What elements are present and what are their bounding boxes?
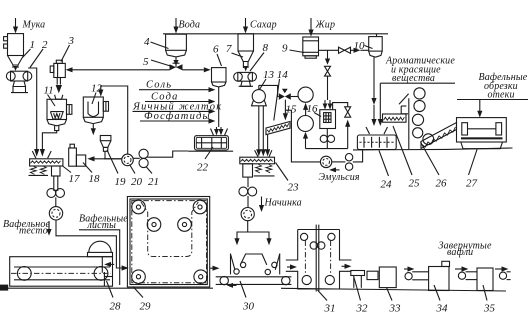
pump 20 bbox=[122, 154, 134, 166]
svg-text:9: 9 bbox=[282, 43, 288, 55]
svg-text:15: 15 bbox=[286, 104, 298, 116]
svg-text:22: 22 bbox=[197, 162, 209, 174]
svg-text:10: 10 bbox=[354, 40, 366, 52]
wire pump 13 drop lines to sieve 23 bbox=[258, 106, 260, 150]
wire pump 20 suction bbox=[104, 158, 122, 160]
svg-text:25: 25 bbox=[409, 178, 421, 190]
ground line left bbox=[0, 287, 213, 289]
inclined conveyor to 27 bbox=[421, 123, 457, 149]
wire tank 10 drain bbox=[373, 57, 375, 99]
wire water inlet arrow bbox=[175, 18, 177, 27]
svg-text:Вода: Вода bbox=[179, 20, 201, 31]
ground hatch left bbox=[0, 285, 8, 291]
baking oven 29 bbox=[127, 197, 209, 288]
wire dough line to oven bbox=[56, 220, 122, 268]
svg-text:3: 3 bbox=[68, 35, 75, 47]
svg-text:11: 11 bbox=[44, 85, 54, 97]
funnel over tank 24 bbox=[366, 127, 370, 134]
filling pump bbox=[241, 196, 254, 221]
feeder 3 bbox=[50, 60, 65, 99]
svg-text:Сахар: Сахар bbox=[250, 20, 277, 31]
vibrating sieve 23 bbox=[240, 150, 275, 177]
svg-text:6: 6 bbox=[213, 44, 219, 56]
hopper 7 bbox=[238, 34, 254, 72]
svg-text:33: 33 bbox=[389, 303, 402, 315]
svg-text:вещества: вещества bbox=[392, 73, 435, 84]
packing machine 34 bbox=[429, 261, 450, 290]
sheet take-off machine 28 bbox=[10, 241, 115, 286]
wire wafer sheets line bbox=[79, 230, 120, 285]
tank 10 bbox=[369, 34, 383, 57]
wire conveyor 14 discharge to sieve 23 bbox=[267, 135, 269, 150]
solution box 22 bbox=[188, 129, 233, 152]
dough pump rollers under sieve 17 bbox=[47, 189, 65, 198]
cutting machine 31 bbox=[286, 225, 352, 292]
press 32 bbox=[351, 271, 365, 288]
tank 9 bbox=[303, 37, 319, 58]
svg-text:18: 18 bbox=[89, 173, 101, 185]
wire 34 to 35 conveyor bbox=[455, 268, 462, 270]
wire fat inlet arrow bbox=[310, 18, 312, 30]
vibrating conveyor 14 bbox=[266, 122, 290, 135]
svg-text:19: 19 bbox=[115, 176, 127, 188]
wire conveyor 30 to cutter 31 bbox=[287, 266, 290, 268]
wire valve branch down to conveyor 14 bbox=[284, 100, 286, 114]
ground line right mid bbox=[353, 148, 446, 151]
wire water line to feeder 3 bbox=[73, 69, 170, 71]
svg-text:Мука: Мука bbox=[22, 20, 46, 31]
roller feeder 8 bbox=[234, 72, 257, 86]
emulsifier 16 bbox=[320, 110, 336, 129]
ground line bottom right bbox=[281, 288, 506, 291]
wire cutter 31 outlet arrow bbox=[342, 265, 345, 267]
dough pump 28-feed bbox=[49, 197, 62, 220]
svg-text:13 14: 13 14 bbox=[263, 69, 288, 81]
svg-text:34: 34 bbox=[436, 303, 449, 315]
wire pump 13 discharge loop to valve bbox=[259, 85, 279, 96]
svg-text:21: 21 bbox=[148, 176, 159, 188]
mast with brace bbox=[399, 94, 409, 149]
wire 33 to 34 conveyor bbox=[404, 268, 408, 270]
pump 18 bbox=[69, 144, 86, 166]
wire emulsion delivery line bbox=[285, 110, 320, 162]
wire recirculation from pump 20 into mixer 12 bbox=[101, 86, 128, 154]
mixer 11 bbox=[47, 99, 72, 126]
svg-text:вафли: вафли bbox=[447, 247, 473, 258]
wire mixer 11 outlet to sieve 17 bbox=[55, 126, 59, 131]
svg-text:20: 20 bbox=[131, 176, 143, 188]
filling pump rollers bbox=[239, 177, 257, 196]
roller feeder 2 bbox=[6, 71, 31, 92]
svg-text:5: 5 bbox=[143, 56, 149, 68]
rollers 21 bbox=[139, 149, 148, 167]
emulsion tank 24 bbox=[357, 135, 396, 150]
svg-text:29: 29 bbox=[140, 301, 152, 313]
wire 35 outlet conveyor bbox=[495, 268, 502, 270]
svg-text:Соль: Соль bbox=[146, 80, 172, 91]
vibrating sieve 17 bbox=[29, 151, 63, 190]
wire scraps return line bbox=[457, 99, 528, 101]
svg-text:26: 26 bbox=[436, 178, 448, 190]
svg-text:Начинка: Начинка bbox=[264, 198, 302, 209]
heater 15 upper bbox=[298, 87, 313, 102]
svg-text:4: 4 bbox=[144, 36, 150, 48]
mixer 12 bbox=[83, 97, 108, 124]
wire vertical fat branch with valve bbox=[327, 50, 329, 59]
emulsion rollers pair bbox=[345, 154, 352, 171]
grinding machine 27 bbox=[457, 118, 507, 149]
svg-text:31: 31 bbox=[324, 303, 336, 315]
wire oven exit arrow bbox=[210, 267, 213, 269]
wire flour inlet arrow bbox=[15, 18, 17, 27]
hopper 1 bbox=[4, 34, 24, 71]
svg-text:28: 28 bbox=[110, 301, 122, 313]
valve on emulsion line bbox=[279, 89, 291, 100]
wire between heaters with up arrow bbox=[305, 110, 307, 116]
svg-text:Жир: Жир bbox=[315, 20, 336, 31]
wire recirculation bottom loop bbox=[305, 138, 307, 148]
pump 13 bbox=[252, 90, 267, 106]
wire collector from tank 6 to box 22 bbox=[218, 87, 220, 127]
wire hopper 19 outlet to pump 18 bbox=[104, 151, 106, 159]
svg-text:27: 27 bbox=[466, 178, 478, 190]
vibrating conveyor 25 bbox=[383, 114, 407, 122]
svg-text:7: 7 bbox=[226, 43, 232, 55]
label Эмульсия with arrow bbox=[336, 169, 340, 171]
label Начинка with arrow bbox=[261, 197, 263, 206]
wrapping machine 33 bbox=[379, 267, 396, 288]
feeder before 33 bbox=[367, 271, 378, 279]
svg-text:8: 8 bbox=[263, 42, 269, 54]
tank 6 bbox=[212, 68, 227, 87]
wire aromatics line bbox=[380, 82, 455, 84]
wire pump to rollers bbox=[332, 161, 346, 163]
wire from feeder 2 to sieve 17 bbox=[28, 68, 37, 150]
svg-text:30: 30 bbox=[242, 301, 255, 313]
svg-text:23: 23 bbox=[288, 182, 300, 194]
svg-text:12: 12 bbox=[91, 83, 103, 95]
hopper 19 bbox=[100, 136, 111, 152]
spreading machine 30 bbox=[216, 254, 292, 288]
wire sugar inlet arrow bbox=[245, 18, 247, 27]
wire top steam main bbox=[163, 33, 388, 35]
wire mixer 12 outlet to hopper 19 bbox=[92, 124, 94, 129]
svg-text:Эмульсия: Эмульсия bbox=[319, 172, 360, 183]
svg-text:отеки: отеки bbox=[488, 90, 515, 101]
wire rollers to tank 24 bbox=[353, 150, 363, 162]
wire tank4 to valve 5 bbox=[175, 57, 177, 62]
heater 15 lower bbox=[297, 116, 313, 132]
emulsion pump bbox=[320, 156, 331, 167]
svg-text:24: 24 bbox=[381, 179, 393, 191]
wire water line to tank 6 bbox=[183, 69, 204, 71]
svg-text:32: 32 bbox=[356, 303, 369, 315]
rollers 26 bbox=[412, 88, 433, 145]
tank 4 bbox=[166, 34, 187, 57]
stacker 35 bbox=[477, 268, 493, 291]
rollers under emulsifier 16 bbox=[320, 129, 334, 149]
wire filling distribution bbox=[237, 221, 248, 239]
wire valve to heater 15 bbox=[291, 96, 298, 98]
wire rollers 21 to box 22 base bbox=[147, 151, 188, 157]
valve on recirculation riser bbox=[345, 107, 351, 112]
valve on fat line bbox=[339, 47, 345, 53]
svg-text:35: 35 bbox=[483, 303, 496, 315]
wire fat line from tank 9 to tank 10 bbox=[319, 49, 339, 51]
svg-text:тесто: тесто bbox=[19, 226, 48, 237]
valve 5 bbox=[170, 63, 183, 70]
svg-text:17: 17 bbox=[69, 173, 81, 185]
